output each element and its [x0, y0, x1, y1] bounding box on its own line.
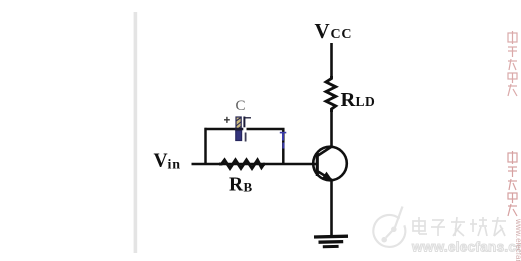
watermark: gray Chinese characters 电子发烧友 (approximated strokes): [413, 217, 506, 236]
svg-text:V: V: [315, 19, 330, 43]
svg-text:R: R: [341, 89, 356, 111]
ground: [314, 236, 348, 247]
emitter arrow head: [322, 172, 333, 181]
wire: Vcc to RLD: [330, 43, 333, 78]
wire: input Vin to base node: [192, 163, 319, 166]
transistor Q1 (NPN): [313, 146, 347, 180]
capacitor C1 (electrolytic), hatched positive plate: [235, 117, 244, 141]
net label Vcc: [315, 19, 353, 43]
left margin divider line: [134, 12, 138, 253]
svg-text:CC: CC: [331, 27, 353, 42]
polarity mark +: [224, 117, 230, 123]
svg-text:in: in: [168, 158, 181, 173]
wire: top branch, right segment from capacitor: [247, 128, 285, 131]
char 友: [492, 220, 506, 222]
svg-text:V: V: [154, 151, 168, 172]
wire: top branch, left segment to capacitor: [205, 128, 237, 131]
wire: right branch vertical (capacitor to base node): [282, 128, 285, 165]
capacitor C1 negative plate: [244, 117, 251, 142]
wire: RLD to collector: [330, 110, 333, 147]
char 子: [432, 219, 444, 221]
svg-text:LD: LD: [356, 94, 376, 109]
svg-text:www.elecfans.com: www.elecfans.com: [411, 240, 521, 255]
resistor RB: [219, 160, 265, 168]
svg-text:www.elecfans.com: www.elecfans.com: [514, 218, 521, 261]
char 电: [413, 221, 425, 231]
watermark: right edge vertical red text, top block: [508, 31, 517, 96]
value label RLD: [341, 89, 376, 111]
char 发: [451, 221, 465, 223]
svg-text:C: C: [236, 98, 246, 114]
wire: emitter to ground: [330, 180, 333, 237]
capacitor lead annotation (blue marks): [280, 133, 287, 149]
svg-text:R: R: [229, 175, 244, 196]
char 烧: [472, 219, 474, 232]
net label Vin: [154, 151, 181, 173]
svg-text:B: B: [244, 180, 253, 195]
resistor RLD: [326, 76, 336, 112]
value label RB: [229, 175, 253, 196]
watermark: elecfans logo circle: [373, 207, 405, 247]
watermark: right edge vertical red text, bottom block: [508, 151, 517, 216]
wire: left branch vertical (input node up to capacitor): [204, 128, 207, 165]
